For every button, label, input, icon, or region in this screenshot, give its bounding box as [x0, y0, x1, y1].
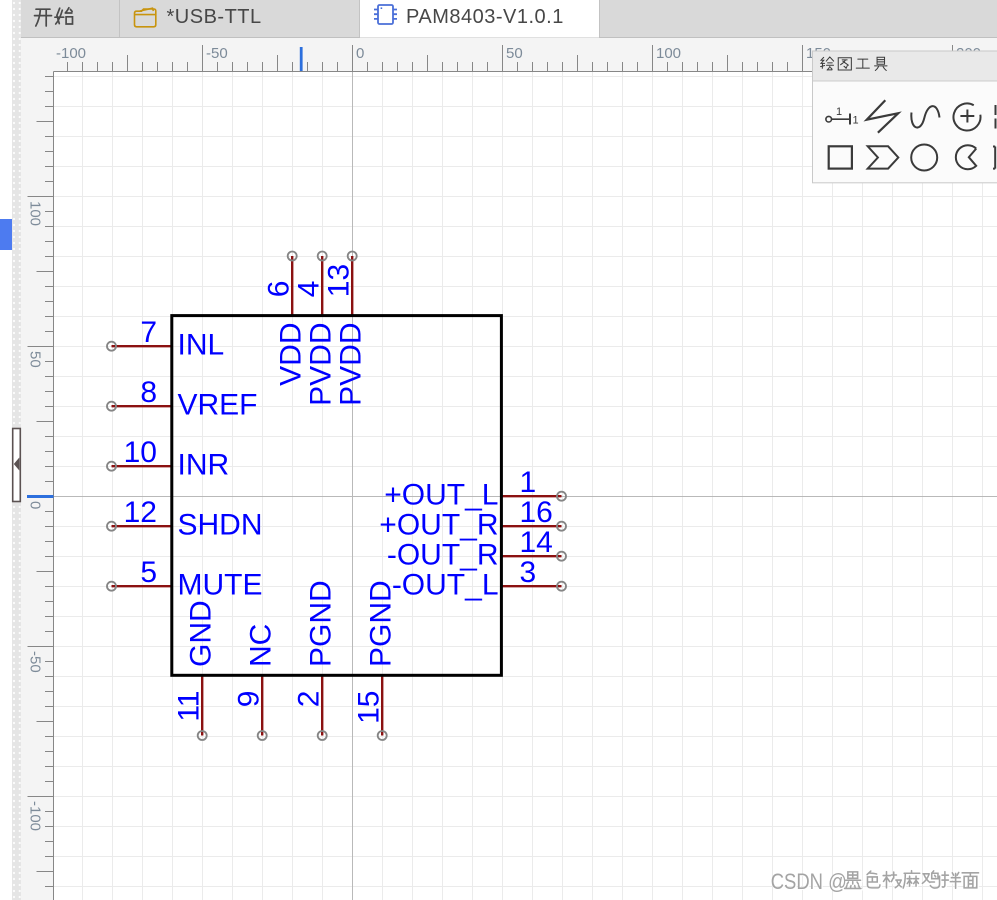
active tab	[360, 0, 599, 38]
cursor marker left (blue)	[27, 495, 54, 498]
svg-text:15: 15	[353, 691, 386, 724]
svg-text:100: 100	[27, 201, 44, 226]
svg-text:PGND: PGND	[305, 580, 338, 667]
svg-text:CSDN @: CSDN @	[771, 869, 847, 894]
left white column	[0, 0, 12, 900]
pin 11 GND (bottom)	[173, 600, 218, 740]
svg-text:INL: INL	[178, 329, 225, 362]
svg-text:MUTE: MUTE	[178, 569, 263, 602]
svg-text:+OUT_R: +OUT_R	[379, 509, 498, 542]
svg-text:-50: -50	[27, 651, 44, 673]
panel header	[813, 52, 997, 82]
tab3 chip icon	[374, 5, 397, 24]
svg-text:PAM8403-V1.0.1: PAM8403-V1.0.1	[406, 6, 564, 28]
blue selection rect	[0, 219, 12, 250]
svg-text:9: 9	[233, 691, 266, 708]
svg-text:1: 1	[836, 106, 842, 118]
pin 8 VREF (left)	[107, 376, 258, 422]
pin 3 -OUT_L (right)	[392, 556, 566, 602]
pin 1 +OUT_L (right)	[384, 466, 566, 512]
pin 12 SHDN (left)	[107, 496, 263, 542]
tool icon: partial 2 (clipped at right edge)	[993, 147, 995, 169]
axis X (y=0 net line)	[54, 496, 997, 498]
svg-text:VREF: VREF	[178, 389, 258, 422]
cursor marker top (blue)	[300, 47, 303, 71]
pin 5 MUTE (left)	[107, 556, 263, 602]
ruler top	[21, 38, 997, 71]
svg-text:GND: GND	[185, 600, 218, 667]
tool icon: partial (clipped at right edge)	[995, 105, 997, 129]
svg-text:-OUT_R: -OUT_R	[387, 539, 499, 572]
collapse handle	[13, 429, 21, 502]
svg-text:PVDD: PVDD	[335, 323, 368, 406]
svg-text:6: 6	[263, 281, 296, 298]
svg-text:5: 5	[140, 556, 157, 589]
svg-text:100: 100	[656, 45, 681, 62]
svg-text:14: 14	[520, 526, 553, 559]
svg-text:-100: -100	[56, 45, 86, 62]
svg-text:*USB-TTL: *USB-TTL	[167, 6, 262, 28]
pin 15 PGND (bottom)	[353, 580, 398, 740]
svg-text:2: 2	[293, 691, 326, 708]
svg-text:-100: -100	[27, 801, 44, 831]
tab1 开始	[35, 8, 73, 26]
svg-text:PVDD: PVDD	[305, 323, 338, 406]
svg-text:11: 11	[173, 691, 206, 722]
svg-text:8: 8	[140, 376, 157, 409]
pin 7 INL (left)	[107, 316, 224, 362]
svg-text:50: 50	[27, 351, 44, 368]
pin 13 PVDD (top)	[323, 252, 368, 406]
svg-text:PGND: PGND	[365, 580, 398, 667]
tool icon: arc circle with plus	[953, 103, 980, 130]
svg-text:16: 16	[520, 496, 553, 529]
tool icon: rectangle	[829, 146, 852, 168]
ruler left	[21, 71, 54, 900]
svg-text:VDD: VDD	[275, 323, 308, 386]
pin 6 VDD (top)	[263, 252, 308, 386]
watermark CSDN @black-pepper-chicken	[846, 872, 980, 890]
svg-text:+OUT_L: +OUT_L	[384, 479, 498, 512]
pin 10 INR (left)	[107, 436, 229, 482]
tool icon: polyline (lightning)	[867, 100, 899, 133]
svg-text:0: 0	[27, 501, 44, 509]
svg-text:NC: NC	[245, 624, 278, 667]
svg-text:3: 3	[520, 556, 537, 589]
chip body U1	[172, 316, 502, 676]
panel title 绘图工具	[821, 57, 887, 71]
svg-text:SHDN: SHDN	[178, 509, 263, 542]
svg-text:INR: INR	[178, 449, 230, 482]
tool icon: ellipse	[911, 145, 937, 171]
svg-text:13: 13	[323, 264, 356, 297]
svg-text:50: 50	[506, 45, 523, 62]
svg-text:-50: -50	[206, 45, 228, 62]
svg-text:7: 7	[140, 316, 157, 349]
svg-text:1: 1	[853, 115, 859, 127]
dotted drag strip	[12, 0, 21, 900]
panel frame	[813, 51, 997, 183]
tool icon: polygon chevron	[868, 146, 899, 168]
tool icon: pin	[826, 114, 850, 125]
pin 14 -OUT_R (right)	[387, 526, 566, 572]
svg-text:4: 4	[293, 281, 326, 298]
pin 2 PGND (bottom)	[293, 580, 338, 740]
pin 16 +OUT_R (right)	[379, 496, 566, 542]
svg-text:12: 12	[124, 496, 157, 529]
svg-text:10: 10	[124, 436, 157, 469]
pin 9 NC (bottom)	[233, 624, 278, 740]
svg-text:0: 0	[356, 45, 364, 62]
pin 4 PVDD (top)	[293, 252, 338, 406]
axis Y (x=0 net line)	[352, 72, 354, 900]
tool icon: arc pacman	[956, 145, 976, 169]
tool icon: spline wave	[911, 106, 939, 127]
tab2 folder icon	[135, 8, 156, 27]
svg-text:1: 1	[520, 466, 537, 499]
svg-text:-OUT_L: -OUT_L	[392, 569, 499, 602]
